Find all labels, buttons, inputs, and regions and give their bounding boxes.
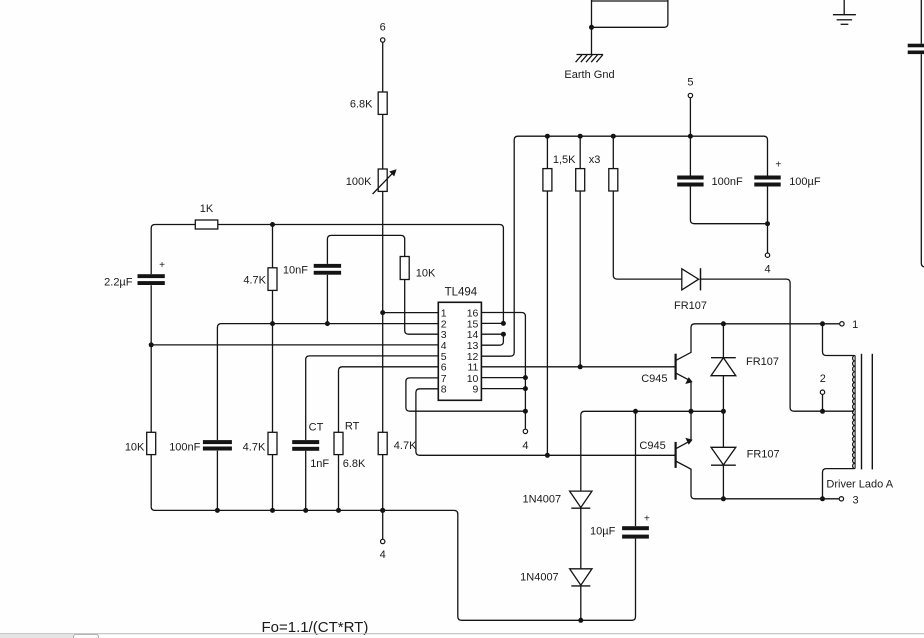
wire earth stem [591, 0, 593, 55]
node bus R2 [578, 134, 583, 139]
svg-text:1nF: 1nF [310, 458, 329, 470]
wire 10K to pin 3 [405, 280, 439, 335]
wire 100nF left to rail [216, 451, 218, 511]
wire 6.8K to pot [382, 114, 384, 169]
terminal 5 [688, 93, 692, 97]
wire right edge top [920, 0, 922, 44]
svg-text:FR107: FR107 [674, 300, 707, 312]
svg-text:Earth Gnd: Earth Gnd [564, 69, 614, 81]
svg-text:100nF: 100nF [712, 176, 743, 188]
resistor RT 6.8K [334, 432, 343, 454]
svg-text:4: 4 [764, 264, 770, 276]
window bottom edge [0, 634, 924, 638]
wire 10nF to pin2 wire [326, 275, 328, 324]
wire Q1 emitter down [690, 381, 692, 411]
node bus R1 [545, 134, 550, 139]
wire 100nF to common [690, 187, 767, 224]
node 4.7K pin2 junction [270, 321, 275, 326]
svg-text:100K: 100K [346, 176, 372, 188]
wire pin 16 down to terminal 4 [481, 313, 525, 430]
capacitor 100nF left [203, 440, 232, 450]
wire mid node to FR107 bottom [722, 411, 724, 447]
node bottom rail RT [336, 508, 341, 513]
transistor Q1 collector [676, 324, 840, 361]
ground earth symbol [576, 55, 603, 63]
svg-text:10nF: 10nF [283, 265, 308, 277]
resistor 6.8K [378, 92, 387, 114]
terminal 4 mid [523, 429, 527, 433]
wire pin 13 up to pin14 [481, 334, 503, 345]
node tap2 junction [820, 409, 825, 414]
wire pin 12 up to bus [481, 136, 518, 356]
transformer core [862, 354, 873, 470]
wire FR107 top to mid node [722, 376, 724, 412]
node earth junction [589, 25, 594, 30]
node bottom rail junction [578, 618, 583, 623]
capacitor 10nF [314, 264, 341, 275]
svg-text:1: 1 [852, 319, 858, 331]
op-amp U1 TL494 body [438, 302, 481, 400]
capacitor 10uF [622, 526, 649, 538]
wire CT to rail [305, 451, 307, 511]
resistor 4.7K right column [378, 432, 387, 454]
wire feedback to pins 15 14 13 [273, 225, 504, 324]
svg-text:6.8K: 6.8K [350, 99, 373, 111]
svg-text:FR107: FR107 [746, 356, 779, 368]
svg-text:6: 6 [380, 22, 386, 34]
transistor Q2 C945 base bar [674, 442, 676, 468]
node bottom rail 4.7Kb [380, 508, 385, 513]
diode 1N4007 second [570, 569, 592, 586]
diode FR107 horizontal [682, 268, 701, 290]
svg-text:Driver Lado A: Driver Lado A [826, 479, 893, 491]
node pin15 junction [501, 321, 506, 326]
wire R b to pin11 node [579, 191, 581, 367]
wire pin2 corner to 100nF [216, 328, 218, 441]
node pin10 junction [523, 375, 528, 380]
svg-text:C945: C945 [641, 373, 667, 385]
transistor Q1 emitter arrow [676, 373, 693, 384]
svg-text:+: + [775, 160, 781, 171]
svg-text:2: 2 [820, 373, 826, 385]
transformer primary coil [853, 356, 856, 469]
wire tap3 [823, 469, 854, 499]
wire tap1 down [823, 324, 854, 356]
wire bus to 100nF [689, 136, 691, 175]
wire rail to 2.2uF [150, 228, 152, 274]
svg-text:4.7K: 4.7K [394, 440, 417, 452]
wire pin 6 to RT [339, 367, 439, 433]
wire to 1N4007 first [580, 415, 582, 491]
node pin11 pullup junction [578, 364, 583, 369]
terminal 3 [839, 497, 843, 501]
wire pin 4 [151, 344, 438, 346]
resistor 10K upper [400, 257, 409, 280]
wire pot down to pin1 node and 4.7K [382, 191, 384, 432]
svg-text:4.7K: 4.7K [243, 442, 266, 454]
node bottom rail 4.7K [270, 508, 275, 513]
terminal 6 [381, 38, 385, 42]
svg-text:9: 9 [473, 384, 479, 396]
wire bus to R 1.5K b [579, 136, 581, 168]
node bottom rail 100nF [215, 508, 220, 513]
pin numbers 1-16 [441, 307, 479, 395]
wire bus to R 1.5K a [546, 136, 548, 168]
node bus R3 [611, 134, 616, 139]
svg-text:+: + [159, 260, 165, 271]
svg-text:RT: RT [345, 421, 360, 433]
wire terminal 2 to tap2 [822, 394, 824, 411]
svg-text:4.7K: 4.7K [243, 275, 266, 287]
node bus C [688, 134, 693, 139]
svg-text:1,5K: 1,5K [553, 154, 576, 166]
resistor 10K bottom-left [147, 432, 156, 454]
resistor 1.5K a [543, 169, 552, 191]
svg-text:2.2µF: 2.2µF [104, 277, 133, 289]
svg-text:FR107: FR107 [747, 448, 780, 460]
svg-text:8: 8 [441, 384, 447, 396]
wire 1K node to 4.7K upper [272, 225, 274, 268]
wire earth to right riser [592, 0, 668, 27]
ground chassis symbol [833, 0, 856, 24]
transistor Q2 collector [676, 461, 840, 499]
wire 4.7K right to rail [382, 455, 384, 511]
wire pin 2 [217, 324, 438, 328]
wire FR107 bottom to collector2 wire [722, 465, 724, 499]
wire earth top loop [592, 0, 668, 2]
svg-text:4: 4 [380, 549, 386, 561]
capacitor 100nF right [677, 176, 703, 187]
node collector1 tap1 junction [820, 321, 825, 326]
capacitor 2.2uF [138, 274, 165, 285]
node 10uF junction [633, 409, 638, 414]
node mid diode junction [721, 409, 726, 414]
svg-text:100µF: 100µF [789, 176, 821, 188]
svg-text:10K: 10K [416, 268, 436, 280]
wire between 1N4007 [580, 508, 582, 569]
svg-text:10µF: 10µF [590, 526, 616, 538]
wire 10uF to bottom rail [454, 510, 636, 620]
wire terminal6 to R 6.8K [382, 42, 384, 92]
wire 10nF top to 10K top [327, 235, 404, 264]
node collector2 diode junction [721, 496, 726, 501]
wire 10K to bottom rail [150, 455, 152, 507]
svg-text:1N4007: 1N4007 [523, 494, 562, 506]
wire 2.2uF to pin4 node [150, 285, 152, 345]
capacitor right edge [908, 44, 924, 54]
wire top supply bus [518, 136, 768, 175]
svg-text:1N4007: 1N4007 [520, 571, 559, 583]
node pin9 junction [523, 386, 528, 391]
wire 4.7K lower to rail [272, 455, 274, 511]
wire pin 14 [481, 333, 503, 335]
node bottom rail CT [303, 508, 308, 513]
wire rail to terminal 4 bottom [382, 510, 384, 539]
terminal 4 bottom [381, 539, 385, 543]
svg-text:100nF: 100nF [169, 442, 200, 454]
wire pin 11 to Q1 base [481, 366, 675, 368]
node 1K junction [270, 222, 275, 227]
resistor 4.7K lower [268, 432, 277, 454]
node pin14 junction [501, 332, 506, 337]
node pin7 junction [523, 409, 528, 414]
wire Q2 emitter up [690, 411, 692, 440]
capacitor CT 1nF [292, 440, 319, 451]
node pin8 base junction [545, 453, 550, 458]
wire pin 8 down and right [416, 389, 676, 456]
wire pin 9 [481, 388, 525, 390]
node collector1 diode junction [721, 321, 726, 326]
diode 1N4007 first [570, 491, 592, 508]
svg-text:C945: C945 [639, 440, 665, 452]
terminal 2 [820, 390, 824, 394]
svg-text:CT: CT [309, 421, 324, 433]
node rail terminal junction [380, 508, 385, 513]
svg-text:6.8K: 6.8K [343, 458, 366, 470]
node caps common [765, 221, 770, 226]
svg-text:x3: x3 [589, 154, 601, 166]
svg-text:+: + [644, 514, 650, 525]
resistor 4.7K upper [268, 268, 277, 291]
node collector2 tap3 junction [820, 496, 825, 501]
wire bus to R 1.5K c [612, 136, 614, 168]
svg-text:5: 5 [687, 76, 693, 88]
capacitor 100uF [754, 176, 780, 187]
node pin4 junction [149, 342, 154, 347]
wire pin 1 [383, 312, 439, 314]
diode FR107 vertical bottom [711, 447, 736, 465]
transistor Q2 emitter arrow up [676, 438, 693, 449]
diode FR107 vertical top [711, 358, 736, 376]
terminal 1 [840, 322, 844, 326]
wire pin 15 [481, 322, 503, 324]
transformer coil spine [854, 356, 856, 469]
svg-text:1K: 1K [200, 203, 214, 215]
wire emitter rail [581, 411, 724, 415]
transistor Q1 C945 base bar [674, 354, 676, 380]
wire 1N4007 to bottom rail [580, 586, 582, 620]
wire 4.7K upper to lower [272, 290, 274, 432]
wire 1K to feedback node [218, 224, 273, 226]
svg-text:10K: 10K [125, 442, 145, 454]
wire bottom rail [151, 507, 454, 511]
wire rail to 10K bottom-left [150, 345, 152, 432]
wire FR107 to transformer tap2 [700, 279, 854, 411]
wire R c to diode FR107 [613, 191, 681, 279]
wire pin 7 down and right [406, 378, 526, 411]
node 10nF pin2 junction [325, 321, 330, 326]
wire 100uF to terminal 4 [767, 187, 769, 253]
resistor 1.5K c [609, 169, 618, 191]
svg-text:3: 3 [853, 494, 859, 506]
wire RT to rail [338, 455, 340, 511]
svg-text:TL494: TL494 [445, 286, 478, 298]
node pin1 junction [380, 310, 385, 315]
wire pin 5 to CT [306, 356, 439, 440]
wire mid node to 10uF [635, 411, 637, 526]
wire terminal 5 to bus [689, 98, 691, 136]
potentiometer 100K body [378, 169, 387, 191]
wire pin 10 [481, 377, 525, 379]
terminal 4 top [765, 253, 769, 257]
resistor 1.5K b [576, 169, 585, 191]
wire R a to pin8 node [546, 191, 548, 455]
resistor 1K horizontal [195, 220, 218, 229]
wire to FR107 top anode [722, 324, 724, 358]
svg-text:4: 4 [522, 440, 528, 452]
node emitters junction [689, 409, 694, 414]
wire right edge down [921, 54, 924, 267]
potentiometer 100K arrow [373, 169, 397, 194]
wire left rail corner to 1K [151, 225, 195, 229]
